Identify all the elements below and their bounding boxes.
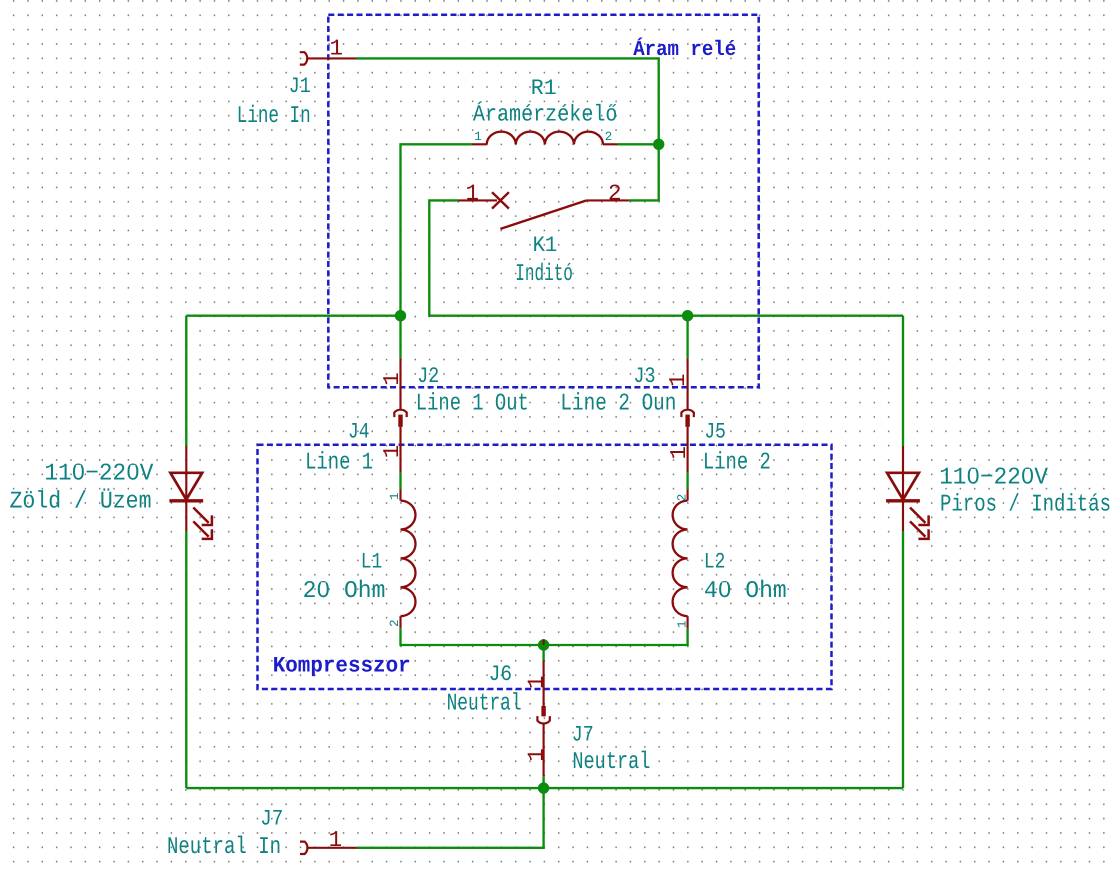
svg-text:2: 2 xyxy=(605,130,613,144)
svg-text:Áram relé: Áram relé xyxy=(633,37,736,62)
svg-text:R1: R1 xyxy=(531,76,557,101)
svg-text:L1: L1 xyxy=(361,550,383,575)
svg-text:J2: J2 xyxy=(417,364,439,389)
svg-text:Neutral: Neutral xyxy=(447,690,522,717)
svg-text:1: 1 xyxy=(666,446,692,460)
svg-text:1: 1 xyxy=(523,748,549,762)
svg-text:Kompresszor: Kompresszor xyxy=(273,654,411,679)
svg-text:J3: J3 xyxy=(634,364,656,389)
svg-text:Inditó: Inditó xyxy=(515,261,573,288)
svg-text:J7: J7 xyxy=(260,807,283,832)
svg-text:J5: J5 xyxy=(704,420,726,445)
svg-text:Neutral In: Neutral In xyxy=(167,834,281,861)
svg-text:110−220V: 110−220V xyxy=(939,465,1048,492)
svg-text:Line 1: Line 1 xyxy=(305,450,373,477)
svg-text:Line 1 Out: Line 1 Out xyxy=(416,391,529,418)
svg-text:1: 1 xyxy=(523,675,549,689)
svg-text:1: 1 xyxy=(329,35,343,61)
svg-text:2: 2 xyxy=(608,181,622,207)
svg-text:J6: J6 xyxy=(489,662,512,687)
svg-text:Neutral: Neutral xyxy=(572,749,650,776)
svg-text:1: 1 xyxy=(329,827,343,853)
svg-text:1: 1 xyxy=(465,181,479,207)
svg-text:2: 2 xyxy=(675,494,689,502)
svg-text:Line 2 Oun: Line 2 Oun xyxy=(560,391,676,418)
svg-text:L2: L2 xyxy=(704,550,726,575)
svg-text:Piros / Inditás: Piros / Inditás xyxy=(940,492,1111,519)
svg-text:1: 1 xyxy=(665,373,691,387)
svg-text:J7: J7 xyxy=(572,723,594,748)
svg-text:40 Ohm: 40 Ohm xyxy=(704,578,787,605)
svg-text:110−220V: 110−220V xyxy=(44,461,154,488)
svg-text:J4: J4 xyxy=(348,420,370,445)
svg-text:1: 1 xyxy=(474,130,482,144)
svg-text:2: 2 xyxy=(388,619,402,627)
svg-text:J1: J1 xyxy=(289,74,311,99)
svg-text:20 Ohm: 20 Ohm xyxy=(303,578,386,605)
svg-text:1: 1 xyxy=(379,445,405,459)
svg-text:1: 1 xyxy=(388,492,402,500)
svg-text:1: 1 xyxy=(379,372,405,386)
svg-text:Line 2: Line 2 xyxy=(703,450,771,477)
svg-text:K1: K1 xyxy=(533,233,558,258)
svg-text:Áramérzékelő: Áramérzékelő xyxy=(473,100,618,127)
svg-text:1: 1 xyxy=(675,620,689,628)
svg-text:Zöld / Üzem: Zöld / Üzem xyxy=(10,488,152,516)
svg-text:Line In: Line In xyxy=(237,103,311,130)
